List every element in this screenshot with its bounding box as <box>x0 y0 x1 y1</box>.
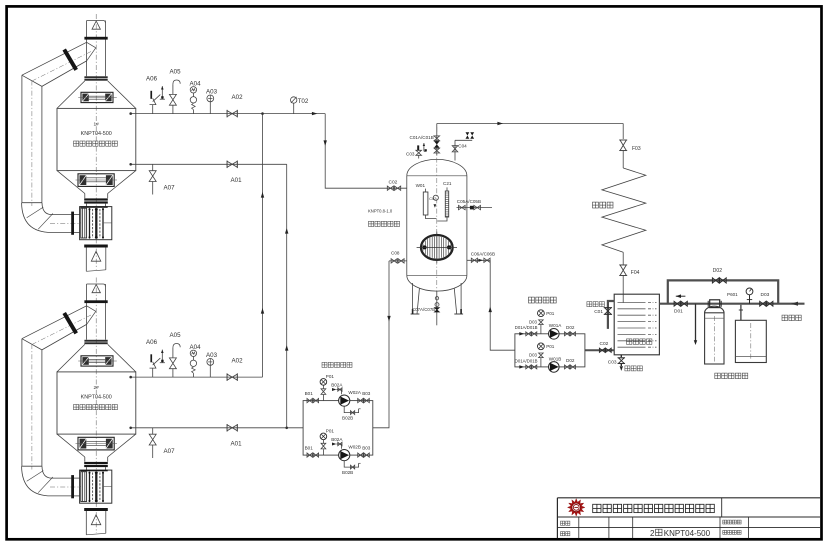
svg-text:D02: D02 <box>566 358 575 363</box>
boiler B1 bottom cone <box>57 171 85 194</box>
softener inlet fitting <box>708 300 721 308</box>
feed branch valve D02 (B) <box>565 358 576 369</box>
softener unit label <box>715 373 748 379</box>
svg-text:1#: 1# <box>94 122 100 128</box>
svg-text:F03: F03 <box>632 146 641 152</box>
svg-text:C02: C02 <box>429 197 436 201</box>
svg-text:2#: 2# <box>94 385 100 391</box>
boiler B1 neck flange <box>84 198 108 200</box>
title row labels <box>561 520 742 536</box>
boiler B1 upper drum <box>81 92 113 102</box>
svg-text:T02: T02 <box>298 98 309 105</box>
svg-text:A03: A03 <box>206 352 218 359</box>
circ branch gauge P01 (A) <box>320 374 334 401</box>
svg-text:C01A/C01B: C01A/C01B <box>410 135 434 140</box>
valve A06 safety (B2) <box>146 339 165 377</box>
svg-text:W01A: W01A <box>549 323 562 328</box>
boiler B1 body <box>57 108 136 170</box>
svg-text:KNPT0.8-1.0: KNPT0.8-1.0 <box>368 209 393 214</box>
boiler B2 <box>22 278 136 535</box>
wire steam riser <box>262 114 264 378</box>
svg-text:B01: B01 <box>305 446 314 451</box>
boiler B2 exhaust arrow <box>91 515 101 525</box>
softener cylinder <box>705 306 724 364</box>
svg-text:C05A/C05B: C05A/C05B <box>457 199 481 204</box>
svg-text:C01: C01 <box>594 309 603 315</box>
svg-text:A06: A06 <box>146 76 158 83</box>
svg-text:C02: C02 <box>389 179 398 185</box>
boiler B2 chimney flange <box>84 300 107 303</box>
separator centerline <box>436 127 438 291</box>
feed branch gauge P01 (B) <box>529 343 555 367</box>
soft water tank label <box>627 339 652 344</box>
svg-text:KNPT04-500: KNPT04-500 <box>81 395 112 401</box>
svg-text:P01: P01 <box>546 311 555 316</box>
boiler B2 inlet pipe <box>52 477 72 479</box>
svg-text:A03: A03 <box>206 89 218 96</box>
svg-text:D03: D03 <box>529 353 537 358</box>
boiler B2 centerline <box>95 278 97 534</box>
boiler B2 upper drum <box>81 356 113 366</box>
wire return riser <box>286 164 288 428</box>
svg-text:B01: B01 <box>305 391 314 396</box>
circ pump drain B02B (B) <box>342 461 361 475</box>
salt tank <box>735 320 766 362</box>
feed pump unit label <box>529 297 557 303</box>
valve A04 gauge (B1) <box>190 81 202 114</box>
circulation pump unit label <box>322 362 352 367</box>
svg-text:A05: A05 <box>170 332 182 339</box>
wire F04 to tank <box>622 276 624 303</box>
boiler B1 lower drum <box>78 174 114 187</box>
valve A02 (B2) <box>227 357 243 381</box>
softener drain <box>694 304 697 345</box>
feed branch gauge P01 (A) <box>529 310 555 334</box>
svg-text:A06: A06 <box>146 339 158 346</box>
svg-text:D02: D02 <box>566 325 575 330</box>
separator drain C08 <box>389 251 407 264</box>
svg-text:B02B: B02B <box>342 416 353 421</box>
feed pump W01 (B) <box>549 356 562 372</box>
boiler B1 air heater block <box>80 207 112 240</box>
wire steam line B2 <box>131 376 263 378</box>
boiler B1 exhaust pipe <box>85 248 87 272</box>
overflow label <box>587 302 605 307</box>
circ branch valve B03 (B) <box>358 446 371 458</box>
svg-text:A01: A01 <box>231 177 243 184</box>
svg-text:C21: C21 <box>443 181 452 186</box>
boiler B2 inlet flange <box>71 475 74 498</box>
circ branch valve B01 (A) <box>305 391 319 403</box>
svg-text:D03: D03 <box>529 320 537 325</box>
company logo <box>568 499 585 516</box>
valve A06 safety (B1) <box>146 76 165 114</box>
valve A04 gauge (B2) <box>190 344 202 377</box>
boiler B1 outlet flange <box>84 245 108 248</box>
valve A03 gauge (B1) <box>206 89 218 114</box>
svg-text:A04: A04 <box>190 81 202 88</box>
svg-text:F04: F04 <box>631 270 640 276</box>
svg-text:B03: B03 <box>362 446 371 451</box>
boiler B1 duct damper <box>64 50 76 70</box>
heat user label <box>593 202 614 208</box>
soft water tank <box>614 294 659 355</box>
circ branch valve B02A (B) <box>331 437 343 449</box>
svg-text:P01: P01 <box>546 344 555 349</box>
svg-text:P01: P01 <box>326 429 335 434</box>
svg-text:C06A/C06B: C06A/C06B <box>471 251 495 256</box>
wire separator downcomer <box>373 261 389 428</box>
svg-text:A07: A07 <box>164 184 176 191</box>
valve C02 separator inlet <box>387 179 400 190</box>
boiler B1 exhaust arrow <box>91 251 101 261</box>
wire steam to separator <box>325 114 407 189</box>
svg-text:A01: A01 <box>231 440 243 447</box>
softener pipe to salt tank <box>739 305 743 321</box>
separator internal C02 <box>429 195 438 208</box>
svg-text:A02: A02 <box>232 357 244 364</box>
boiler B2 chimney <box>86 284 88 340</box>
bypass line <box>668 280 778 303</box>
boiler B1 inlet pipe <box>52 214 72 216</box>
circ branch gauge P01 (B) <box>320 429 334 456</box>
feed branch valve D01A/D01B (B) <box>515 358 538 369</box>
svg-text:D03: D03 <box>761 292 770 298</box>
boiler B2 air heater block <box>80 470 112 503</box>
circulation pump unit frame <box>303 401 373 456</box>
valve F03 <box>619 140 641 152</box>
boiler B1 flue elbow <box>22 202 42 204</box>
valve A07 blowdown (B1) <box>149 164 175 194</box>
overflow pipe C01 <box>594 301 614 329</box>
svg-text:C03: C03 <box>608 359 617 365</box>
boiler B1 chimney flange <box>84 37 107 40</box>
svg-text:D01: D01 <box>674 308 683 314</box>
feed branch valve D01A/D01B (A) <box>515 325 538 336</box>
circ branch valve B02A (A) <box>331 383 343 395</box>
boiler B2 bottom cone <box>57 434 85 457</box>
separator vessel <box>407 159 467 291</box>
valve A01 (B1) <box>227 161 242 184</box>
separator level gauge W01 <box>416 183 437 219</box>
wire F03 to coil <box>622 151 624 168</box>
boiler B1 chimney <box>86 21 88 77</box>
flow arrow near D01 <box>676 294 686 298</box>
circ pump W02 (B) <box>339 445 361 461</box>
boiler B1 <box>22 14 136 271</box>
wire return line B1 <box>131 163 287 165</box>
separator safety valve C03 <box>406 143 427 159</box>
boiler B2 flue duct vertical <box>21 339 23 467</box>
boiler B2 neck flange <box>84 462 108 464</box>
svg-text:C04: C04 <box>458 143 467 148</box>
boiler B2 lower drum <box>78 437 114 450</box>
separator gauge tube C21 <box>437 181 452 221</box>
boiler B2 vent triangle <box>92 285 100 293</box>
instrument T02 <box>291 97 309 114</box>
wire feed water main <box>659 303 804 305</box>
circ pump W02 (A) <box>339 390 362 406</box>
valve D03 <box>760 292 773 306</box>
drawing title <box>650 529 711 538</box>
valve F04 <box>619 265 639 276</box>
svg-text:C08: C08 <box>391 251 400 256</box>
svg-text:C07A/C07B: C07A/C07B <box>412 307 435 312</box>
feed pump W01 (A) <box>549 323 563 339</box>
boiler B1 inlet flange <box>71 212 74 235</box>
boiler B1 centerline <box>95 14 97 270</box>
svg-text:B02A: B02A <box>331 437 343 442</box>
svg-text:A02: A02 <box>232 94 244 101</box>
separator vent C04 <box>452 132 474 160</box>
separator bottom drain C07A/C07B <box>412 291 439 325</box>
svg-text:2: 2 <box>650 529 655 538</box>
blowdown valve C03 <box>608 355 625 371</box>
heat user coil <box>602 168 646 252</box>
tank outlet valve C02 <box>585 341 614 353</box>
separator feed inlet C06A/C06B <box>467 251 495 262</box>
boiler B2 flue duct diagonal <box>22 306 87 339</box>
svg-text:A05: A05 <box>170 68 182 75</box>
svg-text:C02: C02 <box>600 341 609 347</box>
blowdown label <box>625 366 643 371</box>
boiler B1 flue duct diagonal <box>22 42 87 75</box>
svg-text:W01: W01 <box>416 183 426 188</box>
valve A02 (B1) <box>227 94 243 118</box>
separator manhole <box>417 232 457 264</box>
boiler B1 top flange <box>84 76 107 78</box>
boiler B2 top cone <box>57 344 85 372</box>
svg-text:KNPT04-500: KNPT04-500 <box>664 529 711 538</box>
svg-text:D01A/D01B: D01A/D01B <box>515 358 538 363</box>
svg-text:D02: D02 <box>713 268 722 274</box>
svg-text:P601: P601 <box>727 292 738 297</box>
circ pump drain B02B (A) <box>342 406 361 420</box>
boiler B2 top flange <box>84 340 107 342</box>
svg-text:W02A: W02A <box>348 390 361 395</box>
boiler B1 top cone <box>57 81 85 109</box>
wire steam header B1 <box>131 113 326 115</box>
wire to heat user <box>622 124 624 140</box>
pressure gauge P601 <box>727 288 753 304</box>
title block <box>557 498 821 538</box>
boiler B1 flue duct vertical <box>21 75 23 203</box>
wire separator steam out <box>437 123 623 125</box>
circ branch valve B01 (B) <box>305 446 319 458</box>
valve D01 <box>674 301 687 314</box>
feed water inlet arrow <box>791 302 798 306</box>
svg-text:W01B: W01B <box>549 356 562 361</box>
boiler B2 body <box>57 372 136 434</box>
valve A07 blowdown (B2) <box>149 428 175 458</box>
wire return line B2 <box>131 427 303 429</box>
svg-text:B02A: B02A <box>331 383 343 388</box>
svg-text:P01: P01 <box>326 374 335 379</box>
svg-text:B03: B03 <box>362 391 371 396</box>
boiler B2 duct damper <box>64 313 76 333</box>
boiler B2 outlet flange <box>84 508 108 511</box>
feed water label <box>782 315 801 321</box>
boiler B2 exhaust pipe <box>85 511 87 535</box>
feed branch valve D02 (A) <box>565 325 576 336</box>
company name <box>593 504 715 512</box>
valve A05 vent (B1) <box>169 68 181 113</box>
separator tap C05A/C05B <box>457 199 493 210</box>
svg-text:A04: A04 <box>190 344 202 351</box>
svg-text:W02B: W02B <box>348 445 361 450</box>
valve A01 (B2) <box>227 424 242 447</box>
svg-text:KNPT04-500: KNPT04-500 <box>81 131 112 137</box>
valve D02 bypass <box>712 268 726 283</box>
circ branch valve B03 (A) <box>358 391 371 403</box>
valve A05 vent (B2) <box>169 332 181 377</box>
svg-text:C03: C03 <box>406 151 415 156</box>
feed pump unit frame <box>515 334 585 367</box>
wire feed riser <box>490 260 515 350</box>
valve A03 gauge (B2) <box>206 352 218 377</box>
boiler B1 vent triangle <box>92 21 100 29</box>
svg-text:D01A/D01B: D01A/D01B <box>515 325 538 330</box>
separator steam outlet C01A/C01B <box>410 124 440 156</box>
svg-text:A07: A07 <box>164 448 176 455</box>
separator legs <box>411 283 464 314</box>
svg-text:B02B: B02B <box>342 470 353 475</box>
wire coil to F04 <box>622 252 624 264</box>
boiler B2 flue elbow <box>22 465 42 467</box>
